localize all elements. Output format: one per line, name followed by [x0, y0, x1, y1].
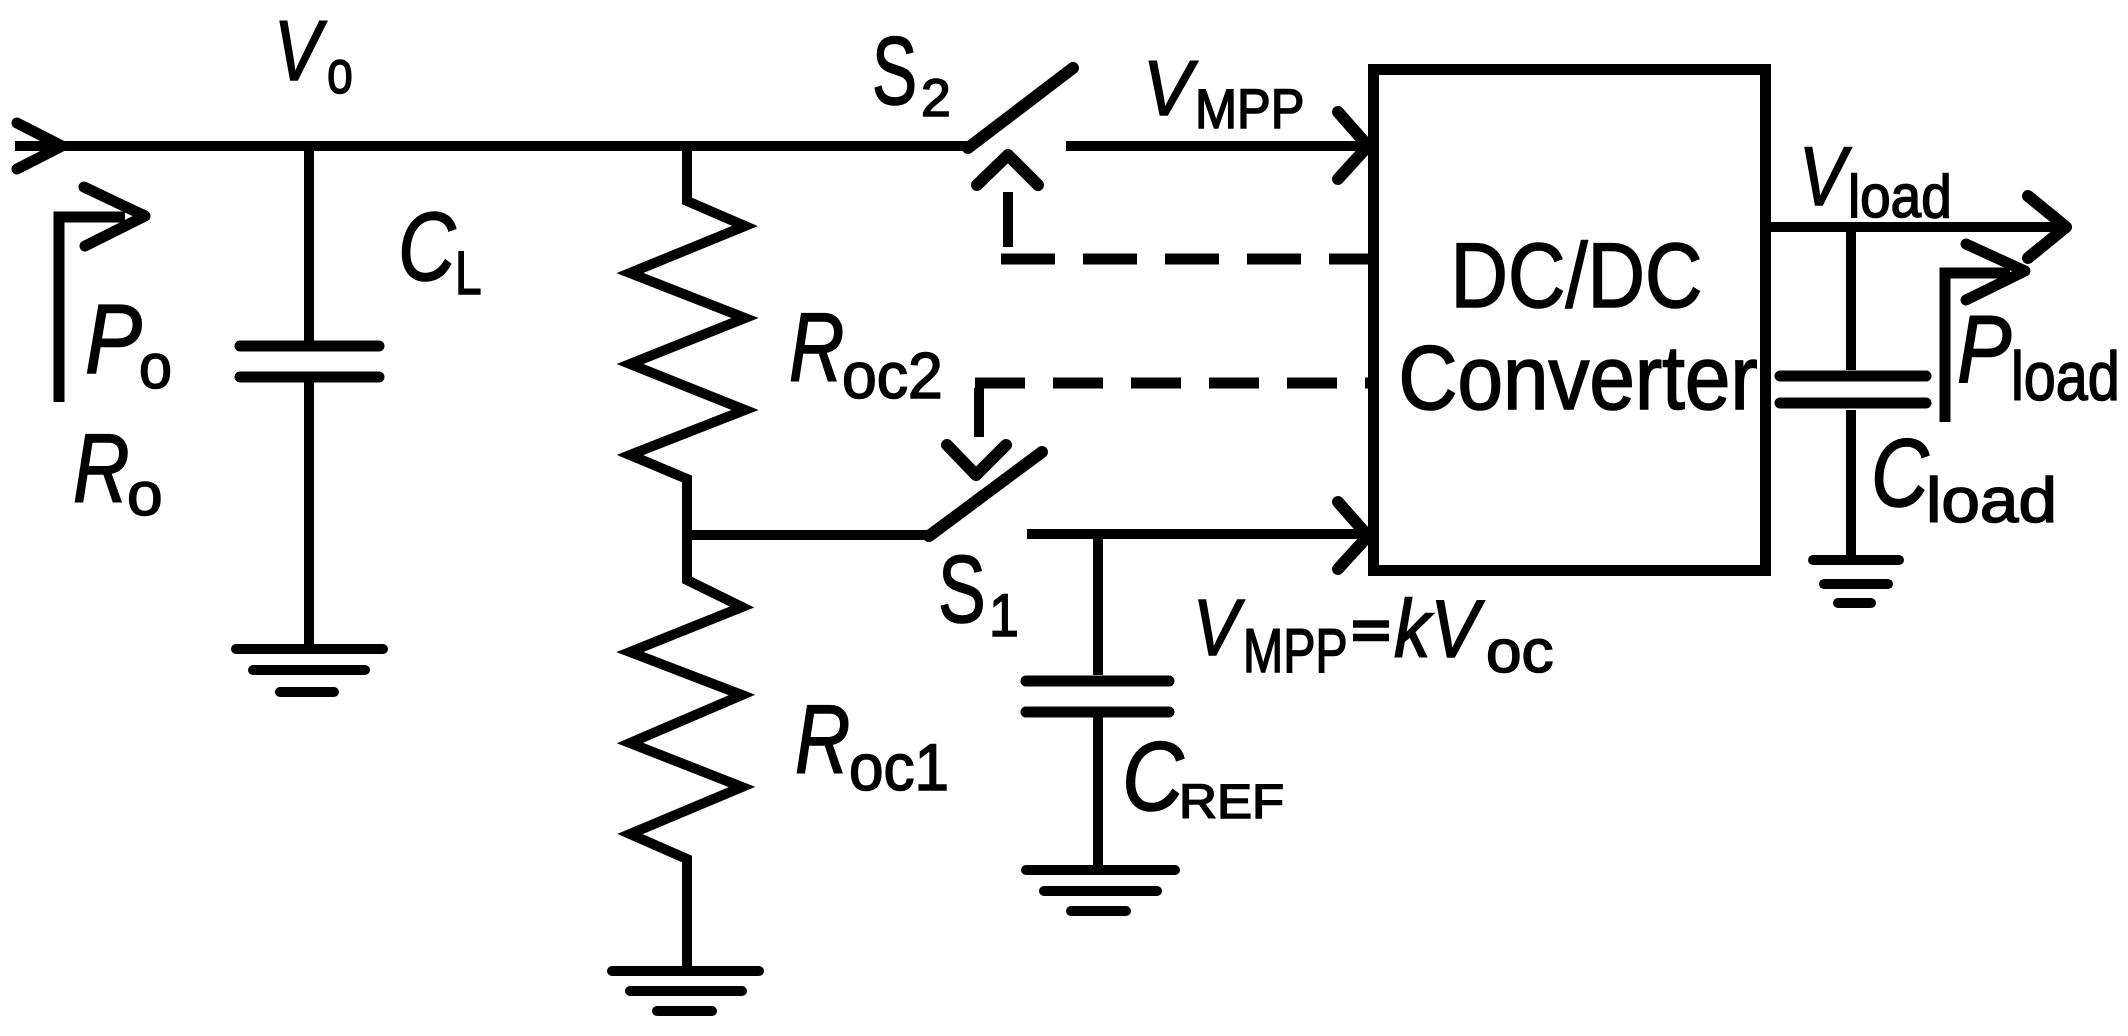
- box text: [1398, 225, 1757, 429]
- node VMPP=kVoc label: [1193, 582, 1554, 686]
- svg-text:R: R: [73, 414, 130, 523]
- svg-text:S: S: [938, 536, 986, 643]
- svg-text:S: S: [872, 18, 917, 125]
- dashed control line S2: [1001, 254, 1373, 265]
- Po arrow: [59, 217, 125, 402]
- svg-text:Converter: Converter: [1398, 328, 1757, 429]
- svg-text:MPP: MPP: [1243, 617, 1348, 686]
- svg-text:load: load: [1848, 163, 1952, 230]
- resistor Roc1 label: [795, 685, 949, 804]
- arrowhead into box (VMPP): [1338, 112, 1368, 179]
- Vload label: [1799, 130, 1952, 230]
- svg-text:R: R: [789, 293, 844, 402]
- svg-text:1: 1: [989, 581, 1019, 649]
- Ro label: [73, 414, 163, 528]
- wire VMPP: [1066, 141, 1364, 151]
- node Vo label: [274, 4, 353, 106]
- switch S2 label: [872, 18, 951, 128]
- ground (Roc1): [612, 971, 759, 1011]
- arrowhead into box (bottom): [1338, 502, 1368, 569]
- wire CL lower: [304, 382, 314, 649]
- svg-text:kV: kV: [1394, 584, 1485, 675]
- svg-text:o: o: [127, 460, 163, 528]
- svg-text:2: 2: [921, 69, 951, 128]
- switch S1 blade: [929, 452, 1042, 536]
- svg-text:C: C: [1871, 420, 1930, 527]
- capacitor Cload label: [1871, 420, 2057, 536]
- Pload label: [1957, 296, 2120, 415]
- svg-text:o: o: [327, 38, 353, 106]
- svg-text:oc1: oc1: [849, 731, 949, 804]
- svg-text:load: load: [1926, 466, 2057, 536]
- capacitor CL label: [398, 192, 482, 308]
- svg-text:oc2: oc2: [842, 339, 943, 412]
- wire mid node: [687, 530, 929, 540]
- input arrowhead: [17, 123, 62, 169]
- output arrowhead: [2028, 196, 2066, 258]
- wire CL branch: [304, 146, 314, 341]
- svg-text:DC/DC: DC/DC: [1451, 225, 1703, 327]
- wire S1 to box: [1027, 529, 1364, 539]
- svg-text:V: V: [274, 4, 327, 99]
- resistor Roc2 label: [789, 293, 943, 412]
- wire Cload branch: [1846, 227, 1856, 370]
- wire top main: [15, 141, 968, 151]
- wire Vload output: [1771, 222, 2058, 232]
- resistor Roc2: [630, 146, 745, 535]
- svg-text:load: load: [2011, 338, 2120, 415]
- dashed control line S1: [975, 378, 1373, 389]
- svg-text:V: V: [1193, 582, 1245, 672]
- svg-text:V: V: [1799, 130, 1852, 223]
- VMPP label: [1143, 44, 1304, 140]
- wire CREF lower: [1093, 717, 1103, 865]
- switch S2 blade: [968, 68, 1073, 148]
- svg-text:R: R: [795, 685, 850, 794]
- svg-text:P: P: [85, 284, 142, 394]
- svg-text:MPP: MPP: [1195, 78, 1304, 140]
- S1 control arrowhead: [947, 445, 1006, 475]
- svg-text:V: V: [1143, 44, 1199, 132]
- switch S1 label: [938, 536, 1019, 649]
- Po label: [85, 284, 172, 402]
- svg-text:P: P: [1957, 296, 2012, 403]
- svg-text:oc: oc: [1486, 617, 1554, 685]
- capacitor CREF: [1026, 681, 1169, 712]
- svg-text:C: C: [1122, 721, 1184, 831]
- capacitor Cload: [1780, 376, 1926, 403]
- svg-text:C: C: [398, 192, 456, 301]
- svg-text:L: L: [455, 239, 482, 308]
- svg-text:REF: REF: [1179, 775, 1284, 829]
- Pload arrow: [1945, 273, 2010, 422]
- DC/DC converter box: [1374, 70, 1766, 571]
- ground (CL): [236, 649, 383, 692]
- svg-text:o: o: [139, 332, 172, 402]
- S2 control arrowhead: [977, 155, 1038, 185]
- S1 control elbow: [974, 388, 984, 437]
- capacitor CL: [240, 346, 379, 377]
- S2 control stem dash: [1003, 192, 1013, 247]
- ground (CREF): [1026, 870, 1175, 911]
- ground (Cload): [1813, 560, 1899, 603]
- wire CREF branch: [1093, 534, 1103, 675]
- resistor Roc1: [630, 535, 742, 966]
- wire Cload lower: [1846, 410, 1856, 555]
- capacitor CREF label: [1122, 721, 1284, 831]
